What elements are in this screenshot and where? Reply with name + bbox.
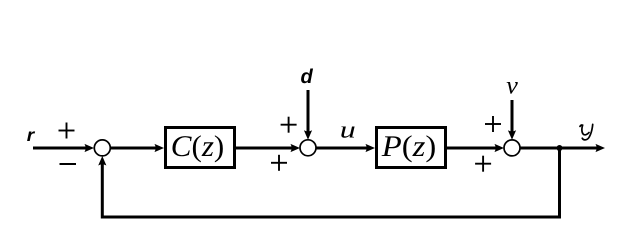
arrowhead of d into S2 [304, 130, 312, 140]
arrowhead of v into S3 [508, 130, 516, 140]
arrowhead into S1 [85, 144, 95, 152]
svg-text:d: d [301, 66, 314, 88]
plus sign below S2 [271, 155, 287, 171]
wire: feedback bottom horizontal segment [102, 216, 561, 219]
wire: feedback left vertical segment up into S1 [101, 161, 104, 219]
plus sign above S3 [485, 116, 501, 132]
plus sign below S3 [475, 156, 491, 172]
arrowhead into C(z) [155, 144, 165, 152]
wire: d drop into S2 [307, 90, 310, 134]
output arrowhead [596, 144, 606, 152]
plus sign at S1 input [59, 123, 75, 139]
block C(z) [166, 128, 235, 168]
summing junction S2 [300, 140, 316, 156]
svg-text:r: r [27, 125, 36, 145]
svg-text:v: v [506, 72, 519, 99]
wire: S2 to P(z) [316, 147, 369, 150]
wire: S3 to output y [520, 147, 599, 150]
block P(z) [377, 128, 446, 168]
wire: C(z) to S2 [236, 147, 294, 150]
arrowhead of feedback into S1 bottom [98, 156, 106, 166]
arrowhead into S2 [291, 144, 301, 152]
svg-text:C(z): C(z) [171, 130, 225, 163]
arrowhead into S3 [495, 144, 505, 152]
svg-text:P(z): P(z) [381, 130, 437, 163]
label y [580, 124, 593, 139]
wire: S1 to C(z) [110, 147, 158, 150]
wire: input r to summing junction S1 [33, 147, 88, 150]
summing junction S3 [504, 140, 520, 156]
minus sign at S1 feedback input [60, 163, 77, 165]
plus sign above S2 [281, 117, 297, 133]
node dot on output line [557, 145, 563, 151]
svg-text:u: u [340, 118, 356, 144]
summing junction S1 [94, 140, 110, 156]
arrowhead into P(z) [366, 144, 376, 152]
wire: v drop into S3 [511, 100, 514, 134]
wire: feedback right vertical segment [558, 148, 561, 217]
wire: P(z) to S3 [447, 147, 498, 150]
